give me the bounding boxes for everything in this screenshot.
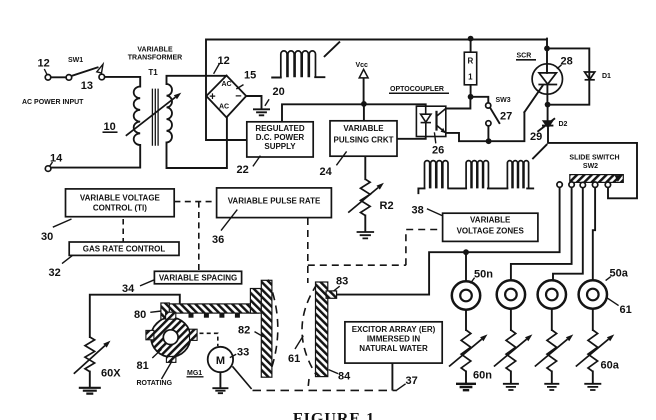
svg-text:REGULATED: REGULATED [255, 124, 304, 133]
svg-text:61: 61 [288, 353, 300, 365]
svg-text:10: 10 [104, 121, 116, 133]
svg-text:60n: 60n [473, 370, 492, 382]
svg-text:32: 32 [49, 267, 61, 279]
svg-text:38: 38 [412, 205, 424, 217]
svg-text:30: 30 [41, 231, 53, 243]
svg-text:29: 29 [530, 131, 542, 143]
svg-text:SCR: SCR [517, 53, 532, 60]
svg-text:81: 81 [137, 360, 149, 372]
svg-text:IMMERSED IN: IMMERSED IN [367, 334, 421, 343]
svg-text:R2: R2 [380, 200, 394, 212]
svg-text:EXCITOR ARRAY (ER): EXCITOR ARRAY (ER) [352, 325, 436, 334]
svg-text:FIGURE 1: FIGURE 1 [293, 411, 375, 420]
svg-text:VARIABLE: VARIABLE [137, 47, 173, 54]
svg-text:36: 36 [212, 234, 224, 246]
svg-text:VARIABLE: VARIABLE [343, 124, 384, 133]
svg-text:TRANSFORMER: TRANSFORMER [128, 55, 182, 62]
svg-text:MG1: MG1 [187, 370, 202, 377]
svg-text:AC: AC [221, 81, 231, 88]
svg-text:VARIABLE SPACING: VARIABLE SPACING [159, 274, 237, 283]
svg-text:SW2: SW2 [583, 163, 598, 170]
svg-text:−: − [235, 91, 241, 103]
svg-text:26: 26 [432, 145, 444, 157]
svg-text:OPTOCOUPLER: OPTOCOUPLER [390, 86, 444, 93]
svg-text:SUPPLY: SUPPLY [264, 142, 296, 151]
svg-text:D2: D2 [559, 121, 568, 128]
svg-text:50n: 50n [474, 269, 493, 281]
svg-text:61: 61 [620, 304, 632, 316]
svg-text:+: + [209, 91, 215, 103]
svg-text:VARIABLE: VARIABLE [470, 215, 511, 224]
svg-text:83: 83 [336, 276, 348, 288]
svg-text:AC: AC [219, 104, 229, 111]
svg-text:60a: 60a [601, 360, 620, 372]
svg-text:NATURAL WATER: NATURAL WATER [359, 344, 428, 353]
svg-text:T1: T1 [148, 68, 158, 77]
svg-text:20: 20 [273, 86, 285, 98]
svg-text:Vcc: Vcc [356, 62, 369, 69]
svg-text:D1: D1 [602, 73, 611, 80]
svg-text:GAS RATE CONTROL: GAS RATE CONTROL [83, 245, 166, 254]
svg-text:50a: 50a [610, 268, 629, 280]
svg-text:84: 84 [338, 371, 351, 383]
svg-text:37: 37 [406, 375, 418, 387]
svg-text:VARIABLE PULSE RATE: VARIABLE PULSE RATE [228, 197, 321, 206]
svg-text:80: 80 [134, 309, 146, 321]
svg-text:VARIABLE VOLTAGE: VARIABLE VOLTAGE [80, 194, 161, 203]
svg-text:SW1: SW1 [68, 57, 83, 64]
svg-text:D.C. POWER: D.C. POWER [256, 133, 305, 142]
svg-text:60X: 60X [101, 368, 121, 380]
svg-text:12: 12 [218, 55, 230, 67]
svg-text:34: 34 [122, 283, 135, 295]
svg-text:82: 82 [238, 325, 250, 337]
svg-text:28: 28 [561, 56, 573, 68]
svg-text:33: 33 [237, 347, 249, 359]
svg-text:22: 22 [237, 164, 249, 176]
svg-text:CONTROL (TI): CONTROL (TI) [93, 204, 147, 213]
svg-text:M: M [216, 355, 225, 367]
svg-text:15: 15 [244, 70, 256, 82]
svg-text:AC POWER INPUT: AC POWER INPUT [22, 99, 84, 106]
svg-text:1: 1 [468, 73, 473, 82]
svg-text:24: 24 [320, 166, 333, 178]
svg-text:13: 13 [81, 80, 93, 92]
svg-text:SW3: SW3 [496, 97, 511, 104]
svg-text:R: R [468, 57, 474, 66]
svg-text:27: 27 [500, 111, 512, 123]
svg-text:12: 12 [38, 58, 50, 70]
svg-text:ROTATING: ROTATING [137, 380, 173, 387]
svg-text:SLIDE SWITCH: SLIDE SWITCH [569, 155, 619, 162]
svg-text:PULSING CRKT: PULSING CRKT [334, 136, 394, 145]
svg-text:VOLTAGE ZONES: VOLTAGE ZONES [457, 227, 525, 236]
svg-text:14: 14 [50, 153, 63, 165]
